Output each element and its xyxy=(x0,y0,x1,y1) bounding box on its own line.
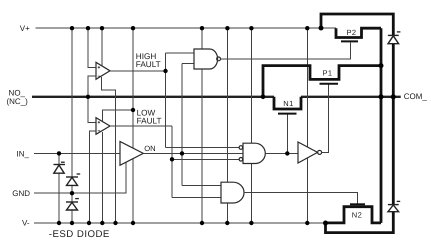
transistor N1 channel dip xyxy=(274,97,301,109)
wire IN_ line xyxy=(34,152,120,154)
junction dot on IN_ line xyxy=(57,151,61,155)
wire HF V- power jog xyxy=(102,77,116,223)
junction dots on V+ rail xyxy=(70,26,324,31)
wire thick top hook V+ to ESD diode xyxy=(321,14,393,35)
junction dots on NO_/COM_ line xyxy=(86,94,396,99)
wire N1 gate lead xyxy=(286,114,288,153)
svg-text:IN_: IN_ xyxy=(17,149,30,158)
transistor P1 gate bar xyxy=(320,83,339,85)
svg-text:(NC_): (NC_) xyxy=(6,97,28,106)
wire LF V+ power jog xyxy=(103,110,134,122)
wire HF +input stub from V+ xyxy=(88,28,96,67)
svg-text:ON: ON xyxy=(144,144,155,153)
wire AND U2 output xyxy=(265,152,298,154)
wire AND U3 output to N2 gate xyxy=(244,192,358,203)
wire LF output xyxy=(110,125,172,127)
power rail through AND U2 xyxy=(250,28,252,223)
wire HF -input stub / NO_ sense xyxy=(88,76,96,122)
power rail through NAND U1 xyxy=(201,28,203,223)
wire V+ rail xyxy=(36,27,336,29)
junction dot N1 gate node xyxy=(285,151,289,155)
wire ON output line xyxy=(143,152,243,154)
wire AND U2 input1 (HF) xyxy=(166,147,240,149)
wire AND U2 input3 (LF) xyxy=(172,158,239,160)
svg-text:-ESD DIODE: -ESD DIODE xyxy=(49,229,110,240)
svg-text:P1: P1 xyxy=(323,69,333,78)
transistor N2 channel xyxy=(326,207,382,223)
svg-text:N1: N1 xyxy=(283,99,293,108)
wire LF V- power stub xyxy=(101,132,103,223)
wire inverter output to P1 gate xyxy=(322,85,329,153)
transistor N1 gate bar xyxy=(278,113,297,115)
junction dots on V- rail xyxy=(57,221,328,226)
junction dot on GND line xyxy=(70,191,74,195)
ESD diode D1 at IN_ xyxy=(58,153,60,223)
wire HF V+ power stub xyxy=(101,28,103,65)
wire V- rail xyxy=(34,222,326,224)
svg-text:COM_: COM_ xyxy=(404,92,428,101)
wire GND line with riser to ON buffer xyxy=(34,162,126,193)
gate AND U2 (2 inverted inputs) xyxy=(243,143,265,163)
svg-text:N2: N2 xyxy=(352,210,362,219)
ESD diode D4 COM_ to V+ xyxy=(388,34,399,36)
comparator LOW FAULT xyxy=(96,118,110,135)
transistor P2 gate bar xyxy=(341,40,358,42)
ESD diode D5 V- to COM_ xyxy=(392,97,395,205)
wire AND U3 input1 (ON) xyxy=(182,185,221,187)
junction dot P1/P2 drain node xyxy=(379,63,384,68)
wire NAND U1 input1 xyxy=(166,52,195,54)
transistor P1 channel xyxy=(263,66,381,97)
gate NAND U1 xyxy=(194,49,218,69)
transistor N2 gate bar xyxy=(350,203,365,205)
wire thick output riser xyxy=(380,28,383,223)
svg-text:V+: V+ xyxy=(20,24,30,33)
transistor P2 channel xyxy=(336,28,381,37)
power rail through buffer ON xyxy=(132,28,134,223)
comparator HIGH FAULT xyxy=(96,62,110,79)
wire NAND U1 input2 from ON xyxy=(182,63,194,185)
svg-text:P2: P2 xyxy=(347,28,357,37)
inverter U4 xyxy=(298,142,318,163)
ESD diode D2 V+ clamp xyxy=(71,28,73,193)
junction dot ON line to NAND xyxy=(180,151,184,155)
wire HF output xyxy=(110,70,166,72)
svg-text:GND: GND xyxy=(12,189,30,198)
wire AND U3 input2 (LF) xyxy=(172,196,221,198)
svg-text:FAULT: FAULT xyxy=(136,60,161,69)
wire LF -input stub to V- xyxy=(90,131,97,223)
wire NAND U1 output to P2 gate xyxy=(221,43,351,59)
svg-text:V-: V- xyxy=(22,219,30,228)
junction dot LF V+ power node xyxy=(131,108,135,112)
ESD diode D3 GND clamp xyxy=(71,193,73,223)
junction dot HF output node xyxy=(163,69,167,73)
power rail through inverter U4 xyxy=(306,28,308,223)
gate AND U3 xyxy=(221,182,244,203)
junction dot LF line to AND U3 xyxy=(170,157,174,161)
svg-text:FAULT: FAULT xyxy=(137,116,162,125)
power rail through AND U3 xyxy=(226,28,228,223)
buffer ON (IN_ buffer) xyxy=(120,142,143,166)
wire HF-out vertical to NAND and AND xyxy=(165,53,167,147)
wire NO_/COM_ signal line xyxy=(32,96,401,98)
wire thick bottom hook V- to ESD diode xyxy=(326,212,394,233)
wire LF-out vertical xyxy=(171,126,173,197)
